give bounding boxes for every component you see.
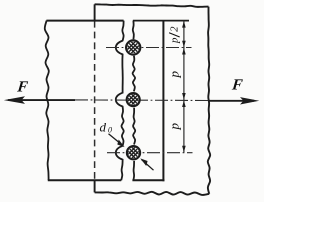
svg-text:p: p [169, 37, 181, 44]
svg-text:p: p [167, 70, 182, 78]
svg-text:0: 0 [108, 125, 112, 134]
svg-text:p: p [167, 123, 182, 131]
svg-text:2: 2 [169, 26, 181, 32]
svg-text:d: d [100, 119, 107, 134]
